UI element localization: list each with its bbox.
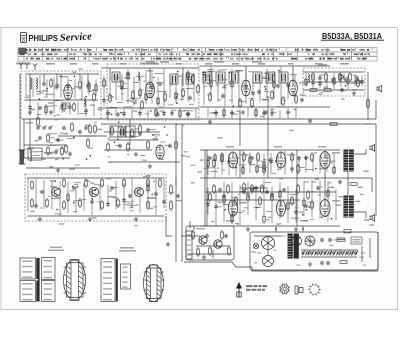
capacitor extra47 (90, 200, 94, 204)
wire drop L2 (181, 226, 183, 262)
power block outline (250, 232, 378, 270)
resistor R73 (139, 124, 142, 134)
connector plug block (186, 231, 192, 259)
resistor R19 (209, 92, 212, 102)
label amp4 (226, 220, 234, 222)
tube V5 demod (156, 145, 164, 159)
wire amp bus y200 (205, 199, 300, 201)
resistor R3 (93, 92, 96, 102)
winding table B lower (42, 281, 56, 302)
resistor R35 (31, 198, 34, 208)
resistor R57 (227, 184, 230, 194)
coil can T8 (118, 127, 126, 137)
resistor R58 (235, 196, 238, 206)
capacitor C15 (331, 78, 335, 82)
wire left drop 1 (23, 119, 25, 158)
resistor R24 (324, 89, 331, 92)
resistor extra57 (249, 155, 251, 165)
resistor R12 (164, 92, 167, 102)
svg-text:PHILIPS: PHILIPS (29, 34, 59, 43)
capacitor C22 (84, 126, 88, 130)
label AM/FM a (146, 61, 155, 63)
preamp dashed enclosure (25, 174, 166, 221)
resistor R26 (111, 126, 114, 136)
resistor R62 (297, 184, 300, 194)
winding table E (121, 264, 131, 289)
wire drops section 8 (28, 178, 164, 216)
resistor extra31 (273, 80, 275, 90)
resistor R64 (350, 183, 357, 186)
ground preamp 2 (88, 217, 92, 221)
resistor extra46 (67, 193, 69, 203)
resistor extra54 (221, 154, 223, 164)
wire amp v3 (324, 168, 326, 200)
IF transformer can T7b (279, 72, 288, 83)
ratio detector dashed box (303, 68, 365, 96)
oscillator dashed box (107, 64, 199, 120)
resistor R21 (325, 72, 328, 82)
capacitor C37 (265, 190, 269, 194)
coil former cross-section 2 (144, 265, 165, 302)
wire bus drop c (181, 124, 183, 226)
capacitor extra35 (230, 111, 234, 115)
capacitor C50 (118, 144, 122, 148)
ground osc 3 (186, 112, 190, 116)
capacitor C55 (78, 130, 82, 134)
capacitor C1 (42, 82, 46, 86)
ground tuner 1 (28, 110, 32, 114)
transistor TS5 (214, 240, 222, 248)
wire motor h2 (181, 235, 200, 237)
capacitor C16 (355, 76, 359, 80)
tube type label V9 (239, 202, 247, 204)
wire amp mid bus (200, 177, 336, 179)
label IF1 (236, 70, 243, 72)
IF transformer can T4 (216, 72, 225, 83)
capacitor extra4 (28, 105, 32, 109)
capacitor C4 (38, 106, 42, 110)
capacitor extra64 (206, 202, 210, 206)
capacitor extra7 (68, 105, 72, 109)
capacitor C38 (304, 204, 308, 208)
label preamp3 (143, 176, 150, 177)
rect module 2 (110, 126, 122, 137)
wire osc h2 (101, 107, 199, 109)
resistor extra5 (45, 105, 47, 115)
tuning gang capacitor C2 (55, 82, 60, 90)
resistor R63 (311, 200, 314, 210)
capacitor extra30 (251, 91, 255, 95)
label IF top b (252, 61, 262, 63)
annotation text line 2 (246, 289, 265, 291)
resistor extra10 (121, 79, 123, 89)
wire IF v2 (292, 66, 294, 80)
resistor R66 (209, 246, 212, 256)
resistor extra2 (88, 82, 90, 92)
resistor R54 (297, 164, 300, 174)
wire right tail (365, 124, 376, 192)
resistor R49 (221, 152, 224, 162)
tube type label V10 (287, 202, 295, 204)
resistor extra28 (231, 79, 233, 89)
wire tuner v3 (56, 74, 58, 82)
wire vol h (58, 135, 96, 137)
resistor R42 (101, 200, 104, 210)
transistor TS3 (135, 188, 144, 197)
wire psu h1 (254, 235, 286, 237)
output transformer winding table upper (20, 258, 38, 279)
label left b (44, 152, 52, 154)
capacitor extra60 (269, 159, 273, 163)
transistor TS1 (52, 188, 61, 197)
wire tuner v2 (43, 74, 45, 82)
resistor R77 (357, 78, 360, 88)
wire tuner v5 (87, 74, 89, 84)
wire left drop 2 (29, 119, 31, 150)
wire motor v1 (212, 250, 214, 258)
resistor R28 (147, 140, 150, 150)
ground tuner 2 (49, 110, 53, 114)
resistor R76 (339, 72, 342, 82)
tube type label V1 (74, 86, 82, 88)
wire mid h2 (104, 149, 152, 151)
dial band left dark block (19, 48, 27, 54)
label det (318, 64, 327, 66)
knob side view (295, 286, 303, 294)
IF transformer can T6 (253, 72, 262, 83)
resistor extra39 (305, 77, 307, 87)
capacitor extra37 (262, 111, 266, 115)
wire spk1 (354, 149, 366, 154)
dial scale tick marks (20, 48, 372, 60)
wire right edge drop (375, 100, 377, 119)
adjustment arrow symbol (237, 283, 242, 297)
resistor R1 (50, 78, 53, 88)
capacitor C32 (250, 156, 254, 160)
output transformer lamination bar (38, 258, 40, 302)
wire osc v2 (149, 68, 151, 82)
wire tuner top bus (25, 73, 99, 75)
tuner coil L2 (36, 78, 37, 89)
resistor R18 (282, 96, 285, 106)
label amp2 (274, 146, 282, 148)
capacitor extra20 (138, 111, 142, 115)
wire motor h3 (196, 245, 230, 247)
label osc2 (126, 100, 133, 102)
dial scale mid caption (140, 63, 158, 65)
resistor R5 (73, 102, 76, 112)
wire amp low bus (200, 225, 340, 227)
switch S1 contacts (37, 126, 53, 130)
wire det drop3 (239, 112, 241, 146)
resistor extra68 (263, 214, 265, 224)
capacitor extra41 (318, 81, 322, 85)
resistor R70 (247, 192, 250, 202)
resistor extra58 (256, 164, 258, 174)
ground demod (148, 164, 152, 168)
output transformer lamination lines T10 (344, 198, 354, 216)
resistor R36 (46, 198, 49, 208)
capacitor extra25 (186, 112, 190, 116)
resistor extra27 (210, 79, 212, 89)
wire main bus 1 (22, 118, 376, 120)
resistor R15 (239, 98, 242, 108)
driver tube V10 (276, 200, 285, 216)
resistor R50 (243, 152, 246, 162)
resistor R80 (197, 84, 200, 94)
resistor R61 (291, 196, 294, 206)
tube type label V6 (239, 154, 247, 156)
wire drop to motor box (189, 221, 191, 228)
resistor extra56 (242, 165, 244, 175)
capacitor extra33 (214, 111, 218, 115)
wire left gnd col (166, 216, 172, 236)
wire mid v b (296, 150, 298, 226)
antenna 1 (19, 63, 23, 70)
wire bus drop a (129, 119, 131, 145)
capacitor extra38 (270, 111, 274, 115)
knob front view (279, 284, 290, 295)
output transformer lamination lines T9 (344, 152, 354, 170)
switch bank rail (301, 249, 358, 251)
resistor R83 (89, 124, 92, 134)
tuning dial scale band frame (18, 48, 377, 62)
wire amp v1 (267, 150, 269, 178)
wire mid h1 (104, 131, 160, 133)
resistor R8 (103, 78, 106, 88)
ground osc 2 (156, 112, 160, 116)
capacitor C31 (208, 156, 212, 160)
decoupling cap C18 (208, 120, 212, 124)
resistor R31 (87, 138, 90, 148)
model title underline (321, 39, 384, 41)
wire amp v4 (347, 171, 349, 196)
capacitor extra9 (102, 98, 106, 102)
capacitor extra43 (346, 81, 350, 85)
label motor (196, 228, 205, 229)
wire left h1 (24, 144, 66, 146)
resistor R71 (271, 192, 274, 202)
resistor R45 (147, 178, 150, 188)
resistor R56 (213, 184, 216, 194)
capacitor C12 (276, 84, 280, 88)
wire psu v1 (267, 250, 269, 255)
tone network capacitor Ca (250, 188, 254, 192)
ground mid (134, 152, 138, 156)
capacitor extra8 (84, 109, 88, 113)
tube type label V7 (287, 154, 295, 156)
resistor extra17 (187, 70, 189, 80)
wire small h (26, 167, 100, 169)
mains transformer T11 (288, 234, 298, 258)
resistor extra42 (333, 76, 335, 86)
capacitor C30 (176, 194, 180, 198)
resistor extra13 (145, 92, 147, 102)
capacitor extra51 (162, 200, 166, 204)
capacitor C48 (316, 186, 320, 190)
annotation text line 1 (246, 285, 267, 287)
tube type label V4 (299, 82, 307, 84)
capacitor C28 (128, 194, 132, 198)
wire det mid (305, 81, 362, 83)
winding table label C (120, 247, 134, 249)
wire psu right v2 (369, 238, 371, 258)
wire amp top bus (200, 149, 340, 151)
wire fb (336, 178, 372, 192)
coil L4 (30, 150, 31, 161)
resistor extra59 (263, 161, 265, 171)
capacitor C35 (218, 188, 222, 192)
capacitor C20 (138, 132, 142, 136)
capacitor C34 (304, 156, 308, 160)
resistor R60 (259, 196, 262, 206)
resistor R41 (101, 178, 104, 188)
IF transformer can T7 (266, 72, 275, 83)
component caption row under band (24, 63, 349, 65)
label amp1 (226, 146, 234, 148)
resistor R29 (175, 140, 178, 150)
IF transformer can T5 (229, 72, 238, 83)
resistor extra16 (175, 91, 177, 101)
capacitor C42 (328, 238, 332, 242)
wire IF top bus (200, 65, 330, 67)
capacitor C53 (300, 98, 304, 102)
output transformer T9 (344, 150, 353, 171)
capacitor C44 (326, 261, 330, 265)
fuse F1 (337, 238, 345, 241)
switch bank slashes (302, 252, 357, 256)
capacitor C26 (72, 186, 76, 190)
rect module 3 (125, 126, 135, 137)
capacitor C27 (110, 186, 114, 190)
wire far left vertical (19, 74, 21, 150)
ground IF 2 (264, 110, 268, 114)
rectifier bridge circle (292, 236, 302, 246)
wire drops section 3 (104, 68, 194, 107)
switch bank contact row (302, 251, 359, 254)
wire drops section 6 (208, 107, 296, 119)
rotary switch S2 (305, 236, 315, 246)
ground psu (308, 262, 312, 266)
label preamp2 (108, 196, 115, 197)
dial band column dividers (24, 48, 351, 62)
fuse holder top (344, 230, 351, 233)
capacitor extra40 (311, 80, 315, 84)
capacitor C9 (158, 82, 162, 86)
wire demod h (108, 139, 158, 141)
coil L6 (308, 74, 309, 82)
tone network resistor Rb (261, 184, 264, 194)
wire bus drop b (175, 124, 177, 210)
resistor R68 (340, 261, 347, 264)
resistor R33 (61, 146, 64, 156)
resistor extra63 (333, 165, 335, 175)
tiny value labels layer 2 (36, 70, 366, 266)
capacitor extra44 (360, 80, 364, 84)
resistor R20 (312, 72, 315, 82)
wire tone v (175, 178, 177, 186)
wire demod h2 (108, 161, 180, 163)
volume control capacitor C54 (62, 126, 66, 130)
label IF top a (214, 61, 224, 63)
driver tube V7 (276, 152, 285, 168)
wire osc v1 (109, 68, 111, 80)
capacitor C41 (320, 238, 324, 242)
antenna 3 (33, 64, 37, 71)
rect box module (28, 148, 42, 160)
capacitor C8 (126, 72, 130, 76)
wire psu stub up 1 (275, 226, 277, 232)
wire drops section 7 (306, 73, 362, 90)
resistor R22 (349, 72, 352, 82)
resistor R78 (197, 247, 200, 257)
tube type label V11 (332, 200, 340, 202)
potentiometer P3 (170, 200, 173, 211)
capacitor extra49 (122, 198, 126, 202)
resistor R25 (330, 123, 337, 126)
resistor R9 (109, 93, 112, 103)
capacitor C39 (338, 180, 342, 184)
resistor R55 (311, 152, 314, 162)
resistor R7 (65, 144, 68, 154)
capacitor extra48 (106, 202, 110, 206)
capacitor C47 (282, 188, 286, 192)
resistor R27 (131, 128, 134, 138)
coil can T1 (112, 72, 120, 82)
wire left h2 (20, 157, 70, 159)
capacitor extra26 (202, 71, 206, 75)
label demod (152, 134, 160, 136)
capacitor C45 (222, 194, 226, 198)
resistor R37 (63, 178, 66, 188)
coil former cross-section 1 (64, 260, 87, 301)
tone network resistor Ra (243, 182, 246, 192)
extra top band stubs (44, 71, 297, 115)
resistor extra74 (327, 189, 329, 199)
resistor extra15 (157, 96, 159, 106)
wire amp v2 (239, 150, 241, 178)
wire connector up (193, 226, 195, 230)
phase splitter tube V9 (228, 200, 237, 216)
IF amplifier tube V3 (242, 80, 251, 96)
capacitor extra69 (270, 193, 274, 197)
coil L5 (138, 72, 139, 80)
output transformer winding table lower (20, 281, 38, 302)
coil L3 (84, 98, 85, 106)
ground IF 1 (241, 110, 245, 114)
label tuner2 (42, 90, 48, 92)
resistor R17 (271, 90, 274, 100)
Philips shield logo (21, 33, 27, 43)
resistor R44 (123, 178, 126, 188)
resistor R48 (213, 158, 216, 168)
label IF2 (262, 99, 269, 101)
phase splitter tube V6 (228, 152, 237, 168)
resistor R30 (94, 124, 97, 134)
resistor R53 (291, 152, 294, 162)
IF amplifier tube V4 (289, 80, 298, 96)
wire osc v3 (182, 68, 184, 86)
winding table B upper (42, 258, 56, 280)
wire preamp bottom bus (27, 215, 164, 217)
diode D1 (340, 74, 344, 80)
wire tuner v4 (79, 74, 81, 80)
transistor TS2 (90, 188, 99, 197)
label preamp1 (50, 186, 57, 187)
resistor R46 (147, 200, 150, 210)
label left a (26, 122, 33, 124)
resistor extra50 (147, 183, 149, 193)
